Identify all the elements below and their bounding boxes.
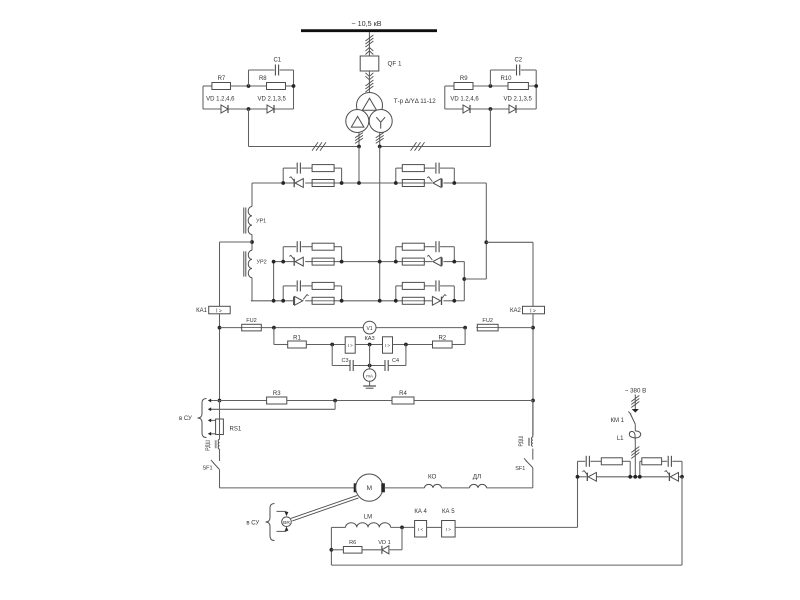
wire right snubber — [681, 461, 683, 477]
wire — [391, 526, 415, 528]
snubber resistor — [312, 243, 334, 250]
fuse — [401, 261, 425, 263]
svg-text:ДЛ: ДЛ — [473, 473, 481, 480]
wire C2 branch — [489, 70, 491, 86]
snubber resistor — [402, 165, 424, 172]
thyristor — [295, 296, 303, 305]
wire QF1 to transformer — [368, 71, 370, 93]
wire main — [283, 182, 293, 184]
node R2 branch — [463, 326, 467, 330]
wire CY tap 2 — [209, 408, 335, 410]
node junction — [489, 84, 493, 88]
svg-text:РДШ: РДШ — [205, 439, 211, 450]
wire KA1 down — [219, 314, 221, 401]
svg-text:QF 1: QF 1 — [388, 61, 402, 68]
wire row2-row3 right link — [463, 262, 465, 301]
svg-text:R7: R7 — [218, 76, 226, 82]
fuse — [311, 182, 335, 184]
wire snubber branch — [282, 247, 284, 262]
sensor coil RDSh — [218, 439, 219, 449]
node right link — [462, 277, 466, 281]
wire — [442, 487, 470, 489]
milliammeter mA — [363, 369, 375, 381]
wire — [498, 327, 533, 329]
wire branch to KA2 — [486, 241, 533, 243]
svg-text:в СУ: в СУ — [246, 520, 259, 526]
node center — [368, 343, 372, 347]
drawout chevrons down — [365, 73, 373, 77]
svg-text:УР1: УР1 — [256, 218, 266, 224]
thyristor — [295, 179, 303, 188]
svg-text:R8: R8 — [259, 76, 267, 82]
wire — [473, 85, 508, 87]
resistor R3 — [267, 397, 287, 404]
svg-text:R3: R3 — [273, 391, 281, 397]
snubber capacitor — [435, 241, 437, 252]
svg-text:R9: R9 — [460, 76, 468, 82]
wire LM left — [331, 526, 345, 528]
transformer secondary wye — [369, 110, 392, 133]
reactor L1 — [629, 431, 640, 442]
fuse — [311, 261, 335, 263]
wire AC feed left to row1 — [358, 147, 360, 184]
fuse — [401, 300, 425, 302]
svg-text:КА1: КА1 — [196, 308, 207, 314]
wire motor right — [384, 487, 424, 489]
diode VD 2.1,3,5 — [509, 105, 516, 113]
svg-text:BR: BR — [283, 520, 290, 526]
resistor R1 — [288, 341, 307, 348]
switch SF1 left — [213, 462, 220, 469]
svg-text:~ 10,5 кВ: ~ 10,5 кВ — [351, 19, 381, 28]
diode VD 1.2,4,6 — [221, 105, 228, 113]
wire — [286, 85, 294, 87]
resistor R2 — [433, 341, 453, 348]
svg-text:I <: I < — [418, 527, 424, 532]
svg-text:VD 1.2,4,6: VD 1.2,4,6 — [206, 97, 235, 103]
node — [357, 145, 361, 149]
resistor left snubber — [601, 458, 622, 465]
snubber resistor — [312, 165, 334, 172]
wire AC line left — [249, 146, 360, 148]
contact arrow — [632, 409, 639, 413]
switch SF1 right — [526, 461, 533, 468]
wire C1 branch — [248, 70, 250, 86]
snubber resistor — [312, 282, 334, 289]
thyristor — [433, 257, 441, 266]
resistor R8 — [267, 83, 286, 90]
relay KA5 — [442, 521, 456, 538]
relay KA3 left — [345, 337, 355, 353]
node KA2 branch — [484, 240, 488, 244]
thyristor exciter left — [588, 472, 596, 481]
brace to CY — [266, 504, 275, 541]
wire loop to AC line — [248, 109, 250, 147]
winding KO — [425, 484, 442, 487]
wire row3 main — [251, 300, 283, 302]
brace to CY — [198, 399, 207, 438]
wire FU2 left line — [220, 327, 242, 329]
wire loop to AC line — [489, 109, 491, 147]
wire busbar to QF1 — [368, 32, 370, 56]
node — [247, 107, 251, 111]
wire SF1 to motor line — [219, 470, 221, 488]
wire C3 branch — [331, 345, 333, 366]
wire feeder — [634, 395, 636, 410]
resistor R7 — [212, 83, 231, 90]
brush right — [382, 484, 385, 492]
wire — [355, 344, 382, 346]
svg-text:в СУ: в СУ — [179, 416, 192, 422]
wire — [376, 327, 465, 329]
resistor R6 — [343, 547, 362, 554]
svg-text:LM: LM — [364, 515, 372, 521]
svg-text:R6: R6 — [349, 540, 356, 546]
svg-text:VD 1.2,4,6: VD 1.2,4,6 — [450, 97, 479, 103]
svg-text:R4: R4 — [399, 391, 407, 397]
node — [400, 526, 404, 530]
wire — [634, 442, 636, 477]
svg-text:КА 4: КА 4 — [414, 509, 427, 515]
wire main — [283, 261, 293, 263]
wire row2 main — [274, 261, 284, 263]
fuse — [311, 300, 335, 302]
svg-text:I >: I > — [348, 343, 353, 348]
wire main — [396, 182, 403, 184]
svg-text:I >: I > — [216, 309, 222, 315]
svg-text:I >: I > — [446, 527, 452, 532]
node FU2 branch — [218, 326, 222, 330]
snubber resistor — [402, 282, 424, 289]
shunt RS1 — [216, 419, 224, 435]
brush left — [354, 484, 357, 492]
wire — [427, 526, 442, 528]
wire — [287, 400, 392, 402]
wire VD1 to LM node — [389, 549, 402, 551]
node R4 line — [531, 399, 535, 403]
wire snubber branch — [282, 286, 284, 301]
wire through shunt — [219, 401, 221, 440]
diode VD1 — [381, 546, 383, 554]
capacitor C1 — [274, 65, 276, 76]
capacitor C4 — [384, 360, 386, 371]
node row3 center — [378, 299, 382, 303]
node C4 branch — [404, 343, 408, 347]
wire to SF1 — [219, 449, 221, 461]
wire R2 to FU2 line — [452, 344, 465, 346]
svg-text:РДШ: РДШ — [519, 435, 525, 446]
wire exciter right edge — [681, 477, 683, 565]
node row1 center — [357, 181, 361, 185]
svg-text:C3: C3 — [341, 358, 348, 364]
breaker QF1 — [360, 56, 379, 71]
wire — [261, 327, 363, 329]
wire — [634, 424, 636, 431]
wire KA5 to exciter — [455, 526, 577, 528]
wire row2-row3 left link — [273, 262, 275, 301]
svg-text:КО: КО — [428, 473, 437, 480]
wire — [532, 449, 534, 460]
resistor R10 — [508, 83, 528, 90]
node — [378, 145, 382, 149]
resistor R4 — [392, 397, 414, 404]
wire row1 main — [252, 182, 283, 184]
node R6 line — [330, 548, 334, 552]
svg-text:C2: C2 — [514, 58, 522, 64]
wire R1 branch — [273, 328, 275, 345]
thyristor exciter right — [670, 472, 678, 481]
wire to mA — [369, 345, 371, 370]
resistor R9 — [454, 83, 473, 90]
svg-text:L1: L1 — [617, 436, 624, 442]
fuse — [401, 182, 425, 184]
wire right edge — [485, 183, 487, 279]
snubber capacitor — [296, 163, 298, 174]
contactor KM1 — [630, 414, 635, 425]
thyristor — [433, 179, 441, 188]
snubber resistor — [402, 243, 424, 250]
wire AC line right — [380, 146, 491, 148]
node KA1 branch — [250, 240, 254, 244]
wire snubber branch — [395, 168, 397, 183]
three-phase marks — [365, 80, 373, 86]
fuse FU2 left — [241, 327, 263, 329]
wire bottom — [445, 108, 463, 110]
node R1 branch — [272, 326, 276, 330]
wire — [362, 549, 381, 551]
wire CY tap 1 — [209, 400, 220, 402]
svg-text:SF1: SF1 — [202, 466, 212, 472]
wire KA2 down — [532, 314, 534, 436]
thyristor — [432, 296, 440, 305]
wire CY tap 3 — [209, 419, 216, 421]
svg-text:SF1: SF1 — [515, 466, 525, 472]
svg-text:I >: I > — [530, 309, 536, 315]
capacitor C3 — [349, 360, 351, 371]
wire transformer leg left — [358, 132, 360, 146]
wire bottom return — [331, 564, 682, 566]
three-phase marks — [365, 35, 373, 41]
motor M — [356, 474, 383, 501]
svg-text:V1: V1 — [367, 326, 373, 332]
wire BR top lead — [277, 510, 287, 512]
wire loop left edge — [202, 86, 204, 109]
node FU2 right branch — [531, 326, 535, 330]
svg-text:R2: R2 — [438, 336, 446, 342]
relay KA1 — [209, 306, 231, 314]
wire loop left edge — [444, 86, 446, 109]
reactor UR1 — [248, 207, 252, 235]
capacitor left snubber — [585, 456, 587, 467]
svg-text:Т-р Δ/YΔ 11-12: Т-р Δ/YΔ 11-12 — [394, 98, 436, 105]
svg-text:mA: mA — [366, 373, 373, 378]
sensor coil RDSh right — [532, 437, 533, 446]
wire snubber branch — [395, 286, 397, 301]
svg-text:КА2: КА2 — [510, 308, 521, 314]
wire — [306, 344, 345, 346]
snubber capacitor — [435, 163, 437, 174]
svg-text:УР2: УР2 — [257, 260, 267, 266]
svg-text:RS1: RS1 — [230, 426, 242, 432]
wire — [393, 344, 433, 346]
relay KA2 — [523, 306, 545, 314]
wire CY tap 4 — [209, 433, 216, 435]
svg-text:FU2: FU2 — [482, 318, 493, 324]
wire AC feed right down — [379, 147, 381, 301]
wire exciter main line — [578, 476, 587, 478]
wire bottom — [203, 108, 221, 110]
wire BR bottom lead — [277, 530, 287, 532]
wire — [528, 85, 536, 87]
node mA — [368, 364, 372, 368]
svg-text:VD 1: VD 1 — [378, 540, 390, 546]
wire to SF1 right — [487, 487, 533, 489]
wire UR1 to UR2 — [251, 235, 253, 251]
wire R6 line — [331, 549, 343, 551]
wire RDSh to KA2 node — [532, 401, 534, 438]
svg-text:М: М — [367, 485, 372, 492]
wire main — [396, 261, 403, 263]
diode VD 1.2,4,6 — [463, 105, 470, 113]
svg-text:FU2: FU2 — [246, 318, 257, 324]
svg-text:КА3: КА3 — [364, 336, 374, 342]
svg-text:I >: I > — [385, 343, 390, 348]
svg-text:КМ 1: КМ 1 — [611, 418, 625, 424]
node busbar 10,5 kV — [301, 29, 437, 32]
capacitor C2 — [516, 65, 518, 76]
relay KA3 right — [383, 337, 393, 353]
wire UR2 to row3 — [251, 278, 253, 301]
wire snubber branch — [282, 168, 284, 183]
node — [489, 107, 493, 111]
snubber capacitor — [435, 280, 437, 291]
shaft — [292, 498, 358, 521]
fuse FU2 right — [476, 327, 499, 329]
node junction — [247, 84, 251, 88]
nodes exciter line — [576, 475, 580, 479]
capacitor right snubber — [667, 456, 669, 467]
svg-text:R10: R10 — [500, 76, 512, 82]
drawout chevrons up — [365, 48, 373, 52]
svg-text:VD 2.1,3,5: VD 2.1,3,5 — [258, 97, 287, 103]
reactor UR2 — [248, 250, 252, 277]
wire left edge row1 to UR1 — [251, 183, 253, 207]
node row2 center — [378, 260, 382, 264]
wire main — [396, 300, 403, 302]
snubber capacitor — [296, 241, 298, 252]
wire LM left edge — [330, 527, 332, 565]
wire C4 branch — [388, 365, 406, 367]
transformer secondary delta — [346, 110, 369, 133]
voltmeter V1 — [363, 321, 376, 334]
transformer T-r primary delta — [357, 93, 383, 119]
wire snubber branch — [395, 247, 397, 262]
node R3 line — [218, 399, 222, 403]
thyristor — [295, 257, 303, 266]
wire R3 line — [220, 400, 267, 402]
wire left snubber — [577, 461, 579, 477]
wire — [231, 85, 267, 87]
wire transformer leg right — [379, 132, 381, 146]
resistor right snubber — [642, 458, 662, 465]
wire main — [283, 300, 293, 302]
wire — [414, 400, 533, 402]
node — [333, 399, 337, 403]
svg-text:C4: C4 — [392, 358, 399, 364]
ground — [369, 381, 371, 386]
relay KA4 — [415, 521, 427, 538]
diode VD 2.1,3,5 — [267, 105, 274, 113]
field winding LM — [346, 523, 391, 528]
svg-text:C1: C1 — [273, 58, 281, 64]
tachogenerator BR — [282, 517, 292, 527]
wire — [353, 365, 385, 367]
svg-text:КА 5: КА 5 — [442, 509, 455, 515]
svg-text:~ 380 В: ~ 380 В — [625, 387, 647, 394]
svg-text:VD 2.1,3,5: VD 2.1,3,5 — [504, 97, 533, 103]
node C3 branch — [330, 343, 334, 347]
wire branch to KA1 — [220, 241, 253, 243]
snubber capacitor — [296, 280, 298, 291]
winding DL — [470, 484, 487, 487]
svg-text:R1: R1 — [293, 336, 301, 342]
